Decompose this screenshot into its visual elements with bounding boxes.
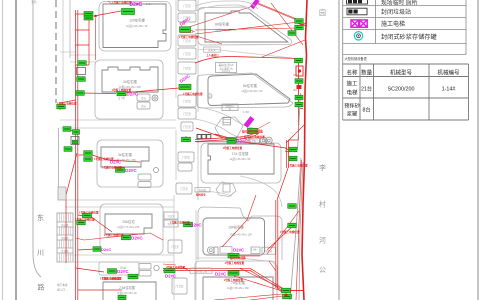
svg-text:临时用电: 临时用电 (196, 193, 206, 197)
red cross mid horiz (196, 125, 304, 148)
marker bnd bottom (282, 288, 305, 299)
svg-text:17# 住宅楼: 17# 住宅楼 (232, 151, 249, 156)
panel divider line (338, 0, 340, 300)
svg-text:生活区: 生活区 (61, 249, 69, 253)
temporary facilities block (57, 213, 73, 292)
svg-text:D2#C: D2#C (233, 247, 245, 252)
marker 6# top (250, 0, 299, 20)
svg-text:H(最)=71.45m 24F: H(最)=71.45m 24F (117, 225, 140, 229)
park text 村 (319, 200, 326, 209)
power cross 4 (76, 249, 105, 272)
marker road cluster (63, 127, 80, 152)
building 2# plot (95, 60, 163, 119)
mortar tank symbol 17# (260, 137, 272, 144)
marker road 216 (79, 211, 99, 218)
svg-text:1号施工电梯位置: 1号施工电梯位置 (104, 233, 124, 237)
svg-text:H(最)=45.45m 4F: H(最)=45.45m 4F (230, 157, 251, 161)
power elbow mid (76, 233, 164, 240)
panel table left edge (342, 0, 344, 120)
cross street mid 2 (195, 107, 262, 140)
cross street mid 4 (196, 258, 276, 262)
red link top 1 (196, 36, 222, 44)
park text 李 (319, 163, 326, 172)
marker road 224 (75, 217, 95, 225)
label box on line (190, 268, 212, 273)
svg-text:1号施工电梯位置: 1号施工电梯位置 (183, 92, 203, 96)
red bottom left link (163, 264, 190, 271)
svg-text:门卫室: 门卫室 (180, 187, 188, 191)
text 13# top (146, 2, 152, 6)
svg-text:8台: 8台 (363, 106, 371, 114)
svg-text:D2#C: D2#C (110, 160, 122, 165)
svg-text:公: 公 (319, 266, 326, 274)
sheet inner border right (477, 0, 479, 300)
svg-text:1号施工电梯位置: 1号施工电梯位置 (75, 217, 95, 221)
svg-text:H(最)=45.45m 15F: H(最)=45.45m 15F (227, 286, 250, 290)
park text 园 (319, 9, 326, 17)
park text 河 (319, 237, 326, 245)
red link 16# up (258, 122, 271, 129)
cross street 3 (65, 200, 174, 207)
svg-text:H(最)=45.45m 4F: H(最)=45.45m 4F (126, 24, 148, 28)
central road west edge (174, 0, 176, 300)
red strip links (184, 20, 186, 141)
svg-text:川: 川 (37, 249, 44, 257)
park text 公 (319, 266, 326, 274)
svg-text:机械编号: 机械编号 (437, 69, 460, 77)
red top small 1 (108, 1, 112, 4)
cross street 2 (60, 120, 176, 128)
building 19# (203, 218, 265, 255)
red link 5# (293, 75, 297, 90)
building 2# (102, 67, 158, 92)
road centerline dashed (55, 0, 57, 103)
marker 2# (112, 88, 139, 101)
svg-text:李: 李 (319, 163, 326, 172)
svg-text:预拌砂: 预拌砂 (344, 102, 360, 110)
red feeder right upper (277, 140, 289, 200)
road west curb (33, 0, 41, 277)
building 25# (100, 204, 163, 254)
building 3# annex boxes (138, 168, 159, 188)
marker 7# row (215, 256, 246, 282)
survey box 17# (244, 138, 260, 144)
svg-text:门卫室: 门卫室 (183, 112, 191, 116)
svg-text:5#住宅楼: 5#住宅楼 (243, 83, 258, 88)
svg-text:D2#C: D2#C (165, 274, 177, 279)
marker strip 139 (182, 137, 191, 142)
guard box (58, 187, 66, 200)
power cross 1 (78, 88, 179, 94)
marker road 63 (78, 61, 87, 66)
building 3# (97, 140, 163, 187)
power line branch b (95, 18, 97, 60)
marker 21# (102, 269, 129, 281)
marker bnd 148 (285, 147, 308, 168)
red link 19# row (222, 195, 299, 254)
building 6# (205, 11, 288, 42)
marker bnd 33 (288, 31, 296, 36)
svg-text:封闭式砂浆存储存罐: 封闭式砂浆存储存罐 (381, 33, 437, 41)
svg-text:大型机械设备表: 大型机械设备表 (345, 56, 368, 61)
svg-text:河: 河 (319, 237, 326, 245)
svg-text:门卫室: 门卫室 (183, 4, 191, 8)
svg-text:1 6#: 1 6# (243, 110, 249, 114)
svg-text:门卫室: 门卫室 (183, 99, 191, 103)
svg-text:安心雅苑 为: 安心雅苑 为 (219, 66, 233, 70)
svg-text:机械型号: 机械型号 (390, 69, 413, 77)
red link 17# (196, 141, 236, 142)
svg-text:东: 东 (37, 213, 44, 222)
red feeder right lower (276, 200, 283, 293)
svg-text:路: 路 (38, 283, 45, 292)
marker 16# (244, 116, 266, 139)
power west branch (66, 153, 77, 263)
svg-text:1号施工电梯位置: 1号施工电梯位置 (166, 266, 186, 270)
building 12# plot (99, 2, 171, 52)
svg-text:1号施工电梯位置: 1号施工电梯位置 (57, 102, 77, 106)
svg-text:1号施工电梯位置: 1号施工电梯位置 (223, 146, 243, 150)
svg-text:配电室: 配电室 (208, 48, 216, 52)
site boundary red (302, 0, 307, 300)
marker bnd 63 (295, 58, 304, 76)
building 12# (103, 4, 166, 48)
marker bnd 225 (280, 223, 300, 234)
marker strip mid (179, 73, 203, 96)
marker bnd 87 (295, 79, 303, 89)
marker 25# (104, 233, 143, 240)
symbol G circle (208, 94, 212, 99)
red link 6# to strip (190, 30, 195, 32)
svg-text:门卫室: 门卫室 (183, 52, 191, 56)
marker 12# top (112, 0, 143, 14)
office box 5# (222, 104, 238, 111)
svg-text:G: G (209, 95, 211, 99)
svg-text:1号施工电梯位置: 1号施工电梯位置 (179, 35, 199, 39)
building 17# plot (201, 143, 281, 183)
road curves top (195, 1, 258, 13)
marker 26# (100, 274, 138, 300)
central facilities cells (164, 0, 196, 294)
red under 16# (195, 132, 259, 142)
svg-text:3#住宅楼: 3#住宅楼 (118, 152, 133, 157)
svg-text:宿舍区: 宿舍区 (61, 236, 69, 240)
svg-text:消防: 消防 (31, 0, 37, 4)
boundary inner red thin (296, 160, 302, 300)
marker road box (77, 68, 86, 82)
marker bnd 21 (295, 19, 307, 30)
marker road 154 (84, 151, 122, 165)
svg-text:D2#C: D2#C (215, 272, 227, 277)
svg-text:浆罐: 浆罐 (347, 110, 357, 118)
cross street 4 (60, 255, 174, 262)
svg-text:1号施工电梯位置: 1号施工电梯位置 (288, 164, 308, 168)
legend row garbage (347, 8, 411, 16)
power line top link (94, 11, 121, 16)
svg-text:1号施工电梯位置: 1号施工电梯位置 (170, 221, 190, 225)
marker strip 268 (164, 266, 186, 279)
road name 东川路 (37, 213, 45, 292)
machinery table row mortar (344, 102, 370, 118)
power line branch a (76, 14, 90, 65)
svg-text:施工电梯: 施工电梯 (381, 20, 405, 28)
svg-text:D2#C: D2#C (117, 269, 129, 274)
svg-text:临时加工棚: 临时加工棚 (195, 269, 208, 273)
svg-text:25#住宅: 25#住宅 (122, 219, 135, 224)
building 5# plot (197, 73, 293, 108)
red safety path label (180, 30, 193, 34)
label box 17# left (195, 188, 210, 197)
svg-text:坐标: 坐标 (141, 96, 146, 100)
svg-text:1号施工电梯位置: 1号施工电梯位置 (79, 211, 99, 215)
road east curb top (69, 0, 71, 58)
red link 19# diag (239, 255, 260, 257)
building 7# (203, 277, 273, 300)
svg-text:1号施工电梯位置: 1号施工电梯位置 (112, 88, 132, 92)
svg-text:D2#C: D2#C (236, 139, 248, 144)
svg-text:出入口: 出入口 (57, 288, 65, 292)
power line to gate (60, 100, 76, 110)
machinery table row elevator (346, 80, 455, 97)
marker road 93 (76, 91, 85, 96)
cross street mid 1 (198, 49, 292, 58)
building 21# block (99, 262, 159, 276)
svg-text:门卫室: 门卫室 (182, 155, 190, 159)
hexagon plot 2 (216, 182, 236, 197)
road east curb inner (60, 0, 75, 103)
marker bnd 100 (295, 95, 303, 107)
svg-text:6#住宅楼: 6#住宅楼 (215, 22, 230, 27)
marker road 249 (93, 247, 111, 252)
marker 19# row (225, 247, 246, 265)
svg-text:门卫室: 门卫室 (183, 39, 191, 43)
svg-text:上人通道口: 上人通道口 (206, 53, 219, 57)
svg-text:现场临时 厕所: 现场临时 厕所 (381, 0, 418, 7)
legend row elevator (351, 20, 405, 28)
svg-text:D2#C: D2#C (190, 222, 202, 227)
red bottom diag (214, 261, 283, 300)
svg-text:SC200/200: SC200/200 (388, 87, 415, 93)
project name block (216, 63, 237, 74)
svg-text:2#住宅楼: 2#住宅楼 (123, 79, 138, 84)
svg-text:D2#C: D2#C (101, 247, 111, 252)
marker 3# (102, 166, 137, 173)
central road east edge (196, 0, 198, 300)
marker gate mid (57, 102, 77, 109)
marker strip top (179, 16, 199, 39)
svg-text:电梯: 电梯 (346, 89, 358, 97)
red bottom double (163, 268, 284, 291)
marker gate top (84, 12, 97, 21)
power line main pair (76, 10, 78, 300)
svg-text:D2#C: D2#C (131, 235, 143, 240)
marker 17# row (223, 130, 264, 150)
svg-text:2 7#: 2 7# (118, 97, 124, 101)
svg-text:坐标: 坐标 (141, 104, 146, 108)
red feeder 293 (289, 58, 304, 140)
red fan boundary top (195, 3, 305, 57)
gray fence right (290, 93, 303, 300)
svg-text:D2#C: D2#C (125, 168, 137, 173)
building 19# plot (198, 207, 282, 260)
svg-text:1号施工电梯位置: 1号施工电梯位置 (100, 277, 120, 281)
power cross 3 (78, 215, 112, 232)
svg-text:1 8#: 1 8# (251, 248, 257, 252)
parking squares (197, 135, 211, 139)
svg-text:村: 村 (319, 200, 326, 209)
building 7# plot (195, 261, 277, 300)
cross street 1 (70, 55, 96, 62)
power cross 5 (78, 289, 122, 291)
svg-text:1号施工电梯位置: 1号施工电梯位置 (225, 261, 245, 265)
svg-text:1 3#: 1 3# (146, 2, 152, 6)
svg-text:门卫室: 门卫室 (183, 125, 191, 129)
svg-text:门卫室: 门卫室 (183, 66, 191, 70)
building 19# annex boxes (207, 247, 275, 255)
mortar tank symbol near 2# (152, 95, 158, 101)
svg-text:临时施工电梯基础: 临时施工电梯基础 (242, 130, 263, 134)
svg-text:H(最)=45.45m 4F: H(最)=45.45m 4F (117, 291, 138, 295)
label box near 6# (204, 47, 221, 57)
svg-text:12#住宅楼: 12#住宅楼 (129, 18, 145, 23)
svg-text:临时用电线路: 临时用电线路 (230, 256, 246, 260)
legend row toilet (347, 0, 418, 7)
svg-text:地下车库: 地下车库 (57, 283, 68, 287)
svg-text:H(最)=40.40m 4F: H(最)=40.40m 4F (242, 89, 263, 93)
building 6# plot (198, 7, 292, 45)
plot hexagon 16# (215, 117, 243, 140)
machinery table grid (343, 64, 469, 120)
legend table grid (343, 0, 466, 55)
red route across (195, 56, 299, 63)
power cross 2 (78, 155, 140, 162)
sheet inner border left (15, 0, 17, 300)
svg-text:21台: 21台 (361, 85, 372, 93)
svg-text:D2#C: D2#C (130, 2, 143, 8)
machinery table header (346, 69, 460, 77)
red link top 2 (189, 7, 250, 27)
power cross 6 (66, 130, 78, 141)
building 26# partial (103, 282, 156, 300)
text 16# (243, 110, 249, 114)
svg-text:数量: 数量 (361, 69, 373, 77)
svg-text:1-14#: 1-14# (442, 87, 456, 93)
building 17# (208, 144, 274, 174)
svg-text:1号施工电梯位置: 1号施工电梯位置 (224, 278, 244, 282)
building 5# (208, 74, 290, 106)
svg-text:2.6#住宅楼: 2.6#住宅楼 (119, 285, 136, 290)
building 2# annex boxes (137, 94, 150, 109)
svg-text:施工: 施工 (346, 80, 358, 88)
sheet outer border left (2, 0, 4, 300)
top left text (31, 0, 37, 4)
svg-text:名称: 名称 (346, 69, 358, 77)
svg-text:1号施工电梯位置: 1号施工电梯位置 (102, 166, 122, 170)
svg-text:办公区: 办公区 (61, 223, 69, 227)
machinery table title (345, 56, 368, 61)
cross street mid 3 (196, 176, 282, 207)
site wall west (58, 128, 60, 196)
svg-text:1号施工电梯位置: 1号施工电梯位置 (280, 230, 300, 234)
svg-text:园: 园 (319, 9, 326, 17)
svg-text:封闭垃圾站: 封闭垃圾站 (381, 8, 411, 16)
svg-text:坐标: 坐标 (252, 139, 257, 143)
svg-text:门卫室: 门卫室 (176, 284, 184, 288)
marker strip 225 (170, 221, 202, 228)
svg-text:门卫室: 门卫室 (171, 245, 179, 249)
legend row mortar tank (354, 32, 436, 41)
marker bnd 206 (288, 204, 297, 209)
